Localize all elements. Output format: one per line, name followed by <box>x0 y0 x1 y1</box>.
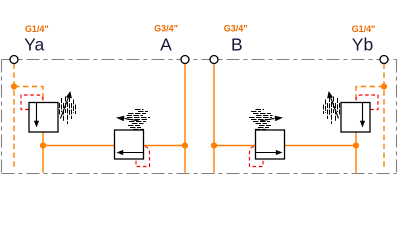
relief valve V4 body <box>341 103 370 133</box>
main line horizontal B to V3 <box>214 145 256 147</box>
svg-text:G1/4": G1/4" <box>25 24 49 34</box>
enclosure frame top edge (chain line) <box>2 59 397 61</box>
relief valve V2 body <box>115 130 144 159</box>
port Yb node circle <box>380 56 388 64</box>
pilot drain loop valve V2 (red dashed) <box>136 147 150 167</box>
junction dot pilot Yb <box>381 83 387 89</box>
valve V1 flow arrow (down) <box>36 103 38 121</box>
main line port A vertical <box>184 64 186 173</box>
main line valve V1 outlet vertical <box>42 132 44 173</box>
svg-text:A: A <box>160 34 172 54</box>
pilot line branch to valve V1 (dashed orange) <box>14 87 43 103</box>
svg-text:G3/4": G3/4" <box>224 24 248 34</box>
enclosure frame bottom edge (chain line) <box>2 173 397 175</box>
main line port B vertical <box>213 64 215 173</box>
pilot line branch to valve V4 (dashed orange) <box>356 87 384 103</box>
enclosure frame right edge (chain line) <box>396 60 398 174</box>
pilot drain loop valve V3 (red dashed) <box>250 147 264 167</box>
junction dot B <box>211 142 217 148</box>
valve V2 flow arrow (left) <box>123 152 144 154</box>
valve V3 spring adjustment arrow <box>260 118 275 121</box>
port A node circle <box>181 56 189 64</box>
valve V3 flow arrow (right) <box>256 152 277 154</box>
pilot line Ya vertical (dashed orange) <box>13 64 15 171</box>
main line valve V4 outlet vertical <box>355 132 357 173</box>
junction dot A <box>182 142 188 148</box>
valve V2 spring adjustment arrow <box>125 118 140 121</box>
junction dot V4 outlet <box>353 142 359 148</box>
pilot drain loop valve V1 (red dashed) <box>21 95 43 110</box>
valve V1 spring adjustment arrow <box>61 97 69 119</box>
svg-text:Yb: Yb <box>352 35 373 55</box>
port B node circle <box>210 56 218 64</box>
valve V1 adjustable spring <box>60 97 76 125</box>
valve V2 adjustable spring <box>127 110 151 130</box>
port Ya node circle <box>10 56 18 64</box>
main line horizontal V3 to V4 junction <box>285 145 357 147</box>
pilot line Yb vertical (dashed orange) <box>383 64 385 171</box>
valve V4 spring adjustment arrow <box>330 97 338 119</box>
junction dot V1 outlet <box>40 142 46 148</box>
svg-text:B: B <box>231 34 243 54</box>
valve V3 adjustable spring <box>249 110 273 130</box>
valve V4 adjustable spring <box>324 97 340 125</box>
svg-text:G1/4": G1/4" <box>352 24 376 34</box>
valve V4 flow arrow (down) <box>362 103 364 121</box>
main line horizontal V1 junction to V2 <box>43 145 115 147</box>
relief valve V1 body <box>29 103 58 133</box>
svg-text:Ya: Ya <box>24 35 44 55</box>
relief valve V3 body <box>256 130 285 159</box>
svg-text:G3/4": G3/4" <box>154 24 178 34</box>
junction dot pilot Ya <box>11 83 17 89</box>
main line horizontal V2 to A <box>144 145 186 147</box>
enclosure frame left edge (chain line) <box>1 60 3 174</box>
pilot drain loop valve V4 (red dashed) <box>356 95 378 110</box>
